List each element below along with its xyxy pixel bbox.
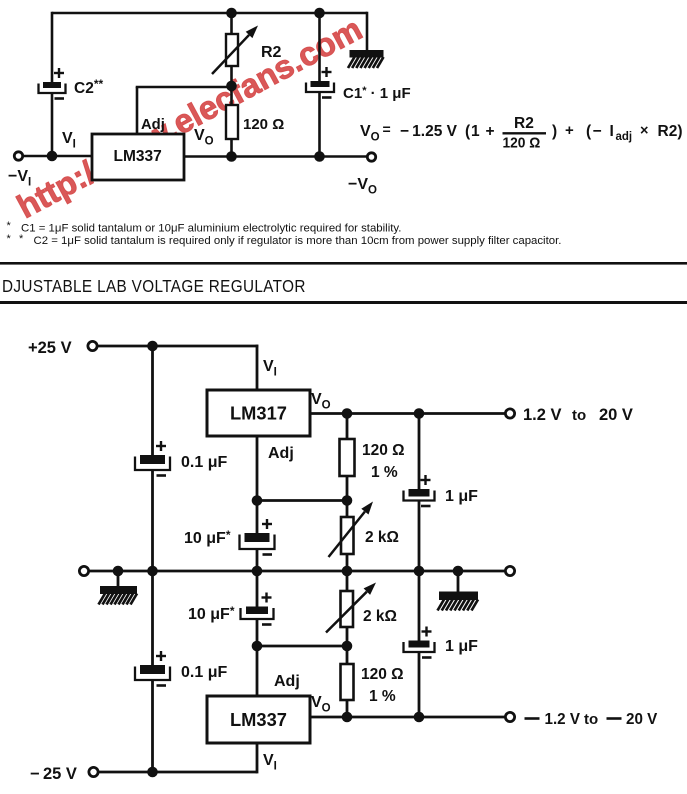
node mid rail / ground right	[453, 566, 464, 577]
wire 2k upper leads	[346, 501, 349, 572]
node mid rail / Adj column	[252, 566, 263, 577]
formula VO equation	[360, 115, 682, 151]
wire +25V rail	[97, 345, 258, 348]
svg-text:0.1 μF: 0.1 μF	[181, 454, 227, 471]
svg-text:Adj: Adj	[141, 117, 165, 133]
wire 1uF lower branch	[418, 571, 421, 717]
terminal -25V	[89, 767, 98, 776]
label Adj (LM337 bottom)	[274, 673, 300, 690]
horizontal rule above title	[0, 262, 687, 265]
svg-text:1 μF: 1 μF	[445, 488, 478, 505]
wire Adj horizontal to R2/120 node	[136, 86, 232, 89]
wire VO rail (top circuit)	[184, 155, 368, 158]
node R2 / 120ohm / Adj	[226, 81, 237, 92]
resistor R2 (variable)	[212, 26, 258, 75]
op-amp U1 regulator LM337 (top circuit)	[92, 134, 184, 180]
label Adj (top circuit)	[141, 117, 165, 133]
resistor 120 ohm (top circuit)	[226, 105, 238, 139]
svg-text:120 Ω: 120 Ω	[362, 442, 405, 459]
svg-text:*: *	[7, 220, 12, 232]
resistor 2k lower (variable)	[326, 583, 376, 633]
svg-text:Adj: Adj	[274, 673, 300, 690]
svg-text:to: to	[572, 407, 586, 424]
wire C2 lower branch	[51, 92, 54, 158]
label 1uF upper	[445, 488, 478, 505]
svg-text:+: +	[565, 122, 574, 139]
label Adj (LM317)	[268, 445, 294, 462]
svg-text:1.2 V: 1.2 V	[523, 406, 562, 424]
regulator U2 LM317	[207, 390, 310, 436]
label VI (LM317)	[263, 358, 277, 379]
svg-text:R2): R2)	[658, 123, 683, 140]
label 1.2V to 20V	[523, 406, 633, 424]
svg-text:=: =	[383, 121, 391, 137]
label -25 V	[30, 765, 77, 783]
capacitor C1	[306, 67, 334, 98]
node -VO rail / 1uF lower	[414, 712, 425, 723]
node Adj upper right	[342, 495, 353, 506]
svg-text:R2: R2	[261, 44, 282, 61]
label +25 V	[28, 339, 72, 357]
label C1* 1uF	[343, 85, 411, 102]
terminal +VO output 1.2-20V	[505, 409, 514, 418]
label 2k lower	[363, 608, 397, 625]
wire Adj vertical (LM337 top)	[136, 87, 139, 135]
resistor 120 ohm 1% lower	[341, 664, 354, 700]
svg-text:R2: R2	[514, 115, 534, 132]
node mid rail / left rail	[147, 566, 158, 577]
wire C1 lower branch	[318, 91, 321, 157]
terminal -VI input	[14, 152, 22, 160]
node VO rail / 1uF upper	[414, 408, 425, 419]
wire 120ohm lower leads	[346, 646, 349, 717]
svg-text:1 μF: 1 μF	[445, 638, 478, 655]
svg-text:*: *	[19, 233, 24, 245]
label C2**	[74, 77, 103, 97]
svg-text:C2 = 1μF solid tantalum is req: C2 = 1μF solid tantalum is required only…	[34, 235, 562, 247]
node VO rail / 120ohm upper	[342, 408, 353, 419]
svg-text:0.1 μF: 0.1 μF	[181, 664, 227, 681]
svg-text:Adj: Adj	[268, 445, 294, 462]
wire ground mid rail	[88, 570, 506, 573]
svg-text:): )	[552, 123, 557, 140]
svg-text:(−: (−	[586, 123, 603, 140]
wire top rail (top circuit)	[52, 12, 367, 15]
svg-text:C1 = 1μF solid tantalum or 10μ: C1 = 1μF solid tantalum or 10μF aluminiu…	[21, 223, 401, 235]
svg-text:+25 V: +25 V	[28, 339, 72, 357]
label 10uF upper	[184, 528, 231, 547]
wire Adj node horizontal (upper)	[257, 499, 347, 502]
svg-text:LM317: LM317	[230, 403, 287, 424]
wire ground drop (top right)	[366, 12, 369, 51]
label 1% lower	[369, 688, 396, 705]
node mid rail / resistor column	[342, 566, 353, 577]
label 2k upper	[365, 529, 399, 546]
terminal ground right	[505, 566, 514, 575]
wire -VO rail (LM337)	[310, 716, 506, 719]
wire 120ohm bottom lead	[230, 139, 233, 157]
label VO (LM317)	[311, 391, 331, 412]
horizontal rule below title	[0, 301, 687, 304]
label R2	[261, 44, 282, 61]
node Adj lower left	[252, 641, 263, 652]
wire C2 upper branch	[51, 12, 54, 83]
label -VO	[348, 176, 377, 197]
label 0.1uF lower	[181, 664, 227, 681]
label 120 ohm lower	[361, 666, 404, 683]
node top rail / C1	[314, 8, 325, 19]
label VO (LM337 bottom)	[311, 694, 331, 715]
capacitor 1uF lower	[404, 627, 435, 658]
wire R2 top lead	[230, 13, 233, 34]
node VO / 120ohm	[226, 151, 237, 162]
wire left rail lower segment	[151, 680, 154, 772]
svg-text:adj: adj	[616, 131, 633, 143]
wire LM337 Adj riser	[256, 646, 259, 696]
capacitor 10uF upper	[240, 519, 275, 555]
wire C1 upper branch	[318, 13, 321, 82]
wire LM337 VI drop	[256, 743, 259, 773]
ground symbol right (mid rail)	[438, 592, 479, 611]
svg-text:DJUSTABLE LAB VOLTAGE REGULATO: DJUSTABLE LAB VOLTAGE REGULATOR	[2, 277, 306, 296]
wire ground stem right	[457, 571, 460, 592]
wire input -VI to LM337	[21, 155, 93, 158]
node VO / C1	[314, 151, 325, 162]
svg-text:2 kΩ: 2 kΩ	[365, 529, 399, 546]
capacitor 1uF upper	[404, 475, 435, 506]
capacitor 0.1uF upper	[135, 441, 170, 476]
svg-text:− 25 V: − 25 V	[30, 765, 77, 783]
svg-text:C1* · 1 μF: C1* · 1 μF	[343, 85, 411, 102]
resistor 120 ohm 1% upper	[340, 439, 355, 476]
svg-text:20 V: 20 V	[626, 711, 658, 728]
ground symbol left (mid rail)	[99, 586, 138, 605]
svg-text:LM337: LM337	[230, 709, 287, 730]
label 0.1uF upper	[181, 454, 227, 471]
node top rail / R2	[226, 8, 237, 19]
wire +25V drop to LM317 VI	[256, 345, 259, 390]
node -VO rail / 120ohm lower	[342, 712, 353, 723]
capacitor 0.1uF lower	[135, 651, 170, 686]
label 120 ohm (top circuit)	[243, 116, 284, 133]
wire Adj node horizontal (lower)	[257, 645, 347, 648]
svg-text:120 Ω: 120 Ω	[361, 666, 404, 683]
label VI (LM337 bottom)	[263, 752, 277, 773]
wire 2k lower leads	[346, 571, 349, 646]
watermark http://www.elecfans.com	[11, 10, 368, 225]
terminal ground left	[79, 566, 88, 575]
svg-text:10 μF*: 10 μF*	[184, 528, 231, 547]
svg-text:1.2 V: 1.2 V	[545, 711, 581, 728]
svg-text:LM337: LM337	[114, 148, 162, 165]
svg-text:to: to	[584, 711, 598, 728]
node input / C2	[47, 151, 58, 162]
svg-text:10 μF*: 10 μF*	[188, 604, 235, 623]
footnote asterisks 2	[7, 233, 25, 245]
label 1% upper	[371, 464, 398, 481]
node mid rail / 1uF column	[414, 566, 425, 577]
svg-text:*: *	[7, 233, 12, 245]
terminal -VO output	[367, 153, 375, 161]
wire LM317 Adj drop	[256, 436, 259, 501]
wire left rail upper segment	[151, 346, 154, 455]
label 1uF lower	[445, 638, 478, 655]
label -VI	[8, 168, 31, 189]
label VI (top circuit)	[62, 130, 76, 151]
capacitor C2	[39, 68, 66, 99]
svg-text:×: ×	[640, 123, 648, 139]
node Adj lower right	[342, 641, 353, 652]
wire 1uF upper branch	[418, 414, 421, 572]
wire 120ohm top lead	[230, 86, 233, 105]
label -1.2V to -20V	[525, 711, 658, 728]
svg-text:(1 +: (1 +	[465, 123, 495, 140]
wire R2 bottom lead	[230, 66, 233, 88]
wire Adj through 10uF to ground rail	[256, 501, 259, 572]
wire 10uF lower branch	[256, 571, 259, 646]
svg-text:− 1.25 V: − 1.25 V	[400, 123, 458, 140]
capacitor 10uF lower	[241, 593, 274, 625]
ground symbol (top circuit)	[348, 50, 384, 68]
footnote C1 note	[21, 223, 401, 235]
svg-text:1 %: 1 %	[371, 464, 398, 481]
label 10uF lower	[188, 604, 235, 623]
svg-text:20 V: 20 V	[599, 406, 633, 424]
wire -25V rail	[99, 771, 258, 774]
node +25V / left rail	[147, 341, 158, 352]
svg-text:2 kΩ: 2 kΩ	[363, 608, 397, 625]
footnote asterisk 1	[7, 220, 12, 232]
svg-text:120 Ω: 120 Ω	[243, 116, 284, 133]
wire ground stem left	[117, 571, 120, 587]
wire left rail mid segment	[151, 470, 154, 665]
terminal +25V	[88, 341, 97, 350]
regulator U3 LM337 (bottom)	[207, 696, 310, 743]
svg-text:120 Ω: 120 Ω	[503, 134, 541, 150]
label 120 ohm upper	[362, 442, 405, 459]
footnote C2 note	[34, 235, 562, 247]
terminal -VO output	[505, 712, 514, 721]
node -25V / left rail	[147, 767, 158, 778]
svg-text:1 %: 1 %	[369, 688, 396, 705]
wire VO rail (LM317)	[310, 412, 506, 415]
wire 120ohm upper leads	[346, 414, 349, 501]
node mid rail / ground left	[113, 566, 124, 577]
svg-text:I: I	[610, 123, 614, 140]
label VO (top circuit)	[194, 127, 214, 148]
node Adj upper left	[252, 495, 263, 506]
section title ADJUSTABLE LAB VOLTAGE REGULATOR	[2, 277, 306, 296]
resistor 2k upper (variable)	[329, 502, 374, 558]
